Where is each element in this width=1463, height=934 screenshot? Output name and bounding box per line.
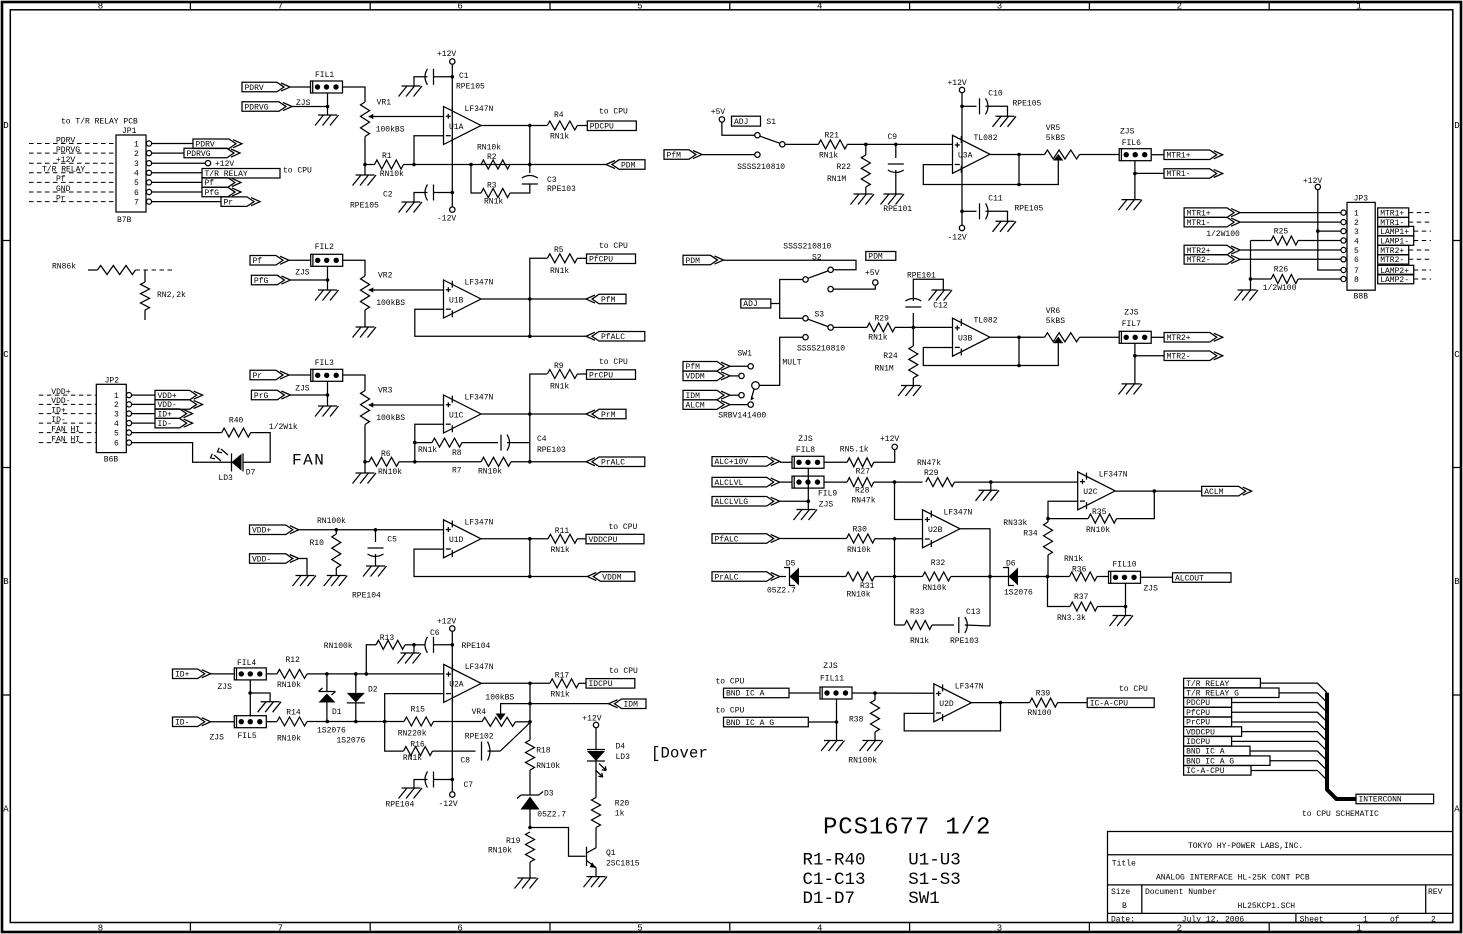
wire BND IC A G to FIL11 center and ground	[836, 699, 838, 741]
capacitor C2 RPE105	[350, 185, 454, 211]
ground at C11	[993, 221, 1017, 232]
svg-text:BND IC A: BND IC A	[726, 690, 765, 699]
svg-text:+12V: +12V	[437, 618, 456, 627]
svg-text:RPE105: RPE105	[350, 202, 379, 211]
svg-text:PfCPU: PfCPU	[589, 256, 613, 265]
svg-text:1: 1	[1356, 2, 1361, 12]
svg-text:1: 1	[114, 392, 119, 401]
filter FIL10	[1109, 561, 1159, 594]
svg-text:R4: R4	[554, 111, 564, 120]
svg-text:MTR1+: MTR1+	[1167, 152, 1191, 161]
node Pf into FIL2	[250, 256, 311, 267]
svg-text:SRBV141400: SRBV141400	[718, 412, 766, 421]
svg-text:RPE103: RPE103	[950, 637, 979, 646]
wire FIL2 center to ground	[326, 266, 330, 290]
wire U1D - feedback to VDDM line	[414, 549, 587, 578]
svg-text:R40: R40	[229, 417, 244, 426]
svg-text:B: B	[3, 577, 9, 587]
svg-text:R9: R9	[554, 362, 564, 371]
svg-text:July 12, 2006: July 12, 2006	[1182, 915, 1245, 924]
svg-text:R37: R37	[1074, 593, 1089, 602]
svg-text:TL082: TL082	[974, 134, 998, 143]
svg-text:RN10k: RN10k	[477, 144, 501, 153]
svg-text:MULT: MULT	[782, 359, 801, 368]
resistor R21 RN1k	[818, 132, 952, 161]
svg-text:PDM: PDM	[868, 252, 883, 261]
svg-text:+12V: +12V	[582, 715, 601, 724]
svg-text:RN10k: RN10k	[847, 546, 871, 555]
wire FIL1 center to ground	[326, 93, 330, 115]
svg-text:D7: D7	[246, 469, 256, 478]
node ID+ source	[173, 669, 235, 680]
svg-text:VDD-: VDD-	[252, 555, 271, 564]
resistor R9 RN1k	[547, 362, 586, 392]
node MTR2+ into JP3 pin5	[1184, 245, 1341, 256]
power +12V rail of U3A	[948, 79, 967, 225]
node MTR2+ out	[1151, 333, 1223, 344]
wire U2D output to R39	[972, 701, 1030, 705]
node Pf from JP1 pin5	[152, 178, 241, 189]
resistor R29b RN47k	[917, 459, 1078, 487]
svg-text:PDCPU: PDCPU	[590, 123, 614, 132]
svg-text:Size: Size	[1111, 888, 1130, 897]
resistor R24 RN1M	[875, 327, 918, 385]
svg-text:D: D	[1454, 121, 1459, 131]
svg-text:8: 8	[1354, 276, 1359, 285]
svg-text:PfM: PfM	[601, 296, 616, 305]
wire VDD+ to U1D + input	[299, 528, 444, 532]
resistor R40 1/2W1k	[222, 417, 298, 438]
op-amp U1C LF347N	[444, 394, 494, 434]
svg-text:4: 4	[1354, 237, 1359, 246]
wire D3 node to Q1 base	[530, 828, 586, 857]
ground below R38	[860, 741, 884, 752]
svg-text:PfALC: PfALC	[715, 535, 739, 544]
wire U3B output to VR6	[990, 336, 1045, 340]
svg-text:JP2: JP2	[105, 377, 120, 386]
resistor R20 1k	[592, 761, 630, 848]
svg-text:PDM: PDM	[621, 161, 636, 170]
svg-text:PfM: PfM	[667, 151, 682, 160]
svg-text:RPE104: RPE104	[352, 592, 381, 601]
node PrG to FIL3 center	[251, 390, 327, 401]
svg-text:R27: R27	[856, 468, 871, 477]
node PfG from JP1 pin6	[152, 187, 241, 198]
svg-text:C3: C3	[547, 176, 557, 185]
svg-text:VR3: VR3	[378, 387, 393, 396]
svg-text:1/2W1k: 1/2W1k	[269, 423, 298, 432]
svg-text:VR6: VR6	[1046, 307, 1061, 316]
svg-text:HL25KCP1.SCH: HL25KCP1.SCH	[1238, 902, 1296, 911]
wire U1B output to R5	[530, 258, 547, 299]
wire JP2 pin6 to LED D7 anode	[132, 443, 232, 463]
svg-text:VDD+: VDD+	[51, 388, 70, 397]
ground below C6 node	[398, 645, 422, 664]
svg-text:2: 2	[1354, 219, 1359, 228]
svg-text:PrM: PrM	[601, 411, 616, 420]
svg-text:C13: C13	[966, 608, 981, 617]
wire U1C output to R9	[530, 374, 547, 414]
ground below R19	[515, 878, 539, 889]
node IDCPU to CPU	[586, 667, 638, 689]
connector JP2	[96, 377, 131, 465]
ground at C7	[399, 788, 423, 799]
svg-text:RPE101: RPE101	[907, 272, 936, 281]
resistor R13 RN100k loop	[324, 634, 416, 674]
svg-text:to CPU: to CPU	[716, 707, 745, 716]
node PDCPU to CPU	[587, 108, 636, 132]
svg-text:RN1k: RN1k	[910, 637, 929, 646]
resistor RN86k spare	[52, 263, 135, 275]
wire VR5 to FIL6	[1080, 154, 1120, 156]
resistor R32 RN10k	[923, 559, 1009, 593]
svg-text:VDDCPU: VDDCPU	[589, 536, 618, 545]
svg-text:R39: R39	[1036, 690, 1051, 699]
resistor RN2.2k spare	[141, 270, 187, 320]
node ALCM to SW1	[683, 400, 748, 411]
svg-text:R17: R17	[555, 672, 570, 681]
title block size/document row	[1111, 888, 1443, 911]
svg-text:2: 2	[114, 401, 119, 410]
svg-text:D5: D5	[786, 560, 796, 569]
svg-text:PrALC: PrALC	[715, 573, 739, 582]
svg-text:SSSS210810: SSSS210810	[783, 243, 831, 252]
resistor R30 RN10k	[847, 526, 923, 556]
resistor R35 RN10k feedback	[1048, 491, 1154, 535]
svg-text:RN86k: RN86k	[52, 263, 76, 272]
svg-text:5: 5	[114, 429, 119, 438]
ground below R10	[324, 576, 348, 587]
svg-text:ALCLVLG: ALCLVLG	[715, 498, 749, 507]
ground below BND IC A G	[821, 741, 845, 752]
resistor R26 1/2W100	[1251, 266, 1341, 294]
svg-text:8: 8	[98, 2, 103, 12]
node PDRVG to FIL1 center pin	[242, 102, 328, 113]
svg-text:7: 7	[278, 2, 283, 12]
svg-text:S1: S1	[766, 118, 776, 127]
op-amp U1A LF347N	[444, 105, 494, 145]
svg-text:R25: R25	[1274, 228, 1289, 237]
switch S3 SSSS210810	[797, 311, 845, 354]
svg-text:IDCPU: IDCPU	[589, 680, 613, 689]
svg-text:Sheet: Sheet	[1300, 915, 1324, 924]
svg-text:C6: C6	[430, 629, 440, 638]
wire U2A output	[481, 682, 550, 741]
net label PDM box	[866, 252, 896, 262]
svg-text:U1B: U1B	[449, 296, 464, 305]
svg-text:Pf: Pf	[56, 175, 66, 184]
wire VR3 bottom to R6 node	[364, 425, 366, 462]
wire U1A output	[481, 124, 547, 128]
svg-text:LF347N: LF347N	[1099, 470, 1128, 479]
node ALCLVL source	[712, 477, 792, 488]
wire U3A output to VR5	[990, 153, 1045, 157]
ground below FIL3	[315, 406, 339, 417]
svg-text:FIL2: FIL2	[315, 243, 334, 252]
svg-text:D3: D3	[544, 790, 554, 799]
svg-text:RN10k: RN10k	[277, 681, 301, 690]
svg-text:LF347N: LF347N	[465, 279, 494, 288]
ground at C1	[399, 86, 423, 97]
wire U3A - feedback loop	[923, 155, 1021, 187]
interconnect bus thick wire	[1327, 693, 1356, 799]
svg-text:5: 5	[134, 179, 139, 188]
svg-text:3: 3	[134, 160, 139, 169]
JP1 left dashed stubs	[29, 136, 116, 203]
svg-text:FAN HI: FAN HI	[51, 435, 80, 444]
svg-text:to CPU: to CPU	[599, 358, 628, 367]
svg-text:1: 1	[1354, 209, 1359, 218]
potentiometer VR6 5kBS	[1019, 307, 1080, 366]
svg-text:LF347N: LF347N	[465, 518, 494, 527]
svg-text:RN1k: RN1k	[868, 334, 887, 343]
svg-text:2: 2	[134, 150, 139, 159]
svg-text:C1: C1	[459, 72, 469, 81]
svg-text:T/R RELAY: T/R RELAY	[42, 166, 85, 175]
svg-text:U1-U3: U1-U3	[908, 851, 961, 871]
LED D4 LD3	[587, 743, 630, 778]
svg-text:ZJS: ZJS	[819, 501, 834, 510]
svg-text:C4: C4	[537, 435, 547, 444]
switch S1 SSSS210810 ADJ	[732, 116, 786, 172]
wire dashed spare net	[136, 269, 174, 271]
ground below VR3/R6 node	[353, 460, 377, 484]
wire R28 node to U2B + input	[895, 482, 923, 519]
svg-text:100kBS: 100kBS	[485, 693, 514, 702]
wire FIL6 center to ground	[1133, 161, 1137, 200]
svg-text:LD3: LD3	[616, 753, 631, 762]
svg-text:to CPU: to CPU	[283, 167, 312, 176]
svg-text:to T/R RELAY PCB: to T/R RELAY PCB	[61, 118, 138, 127]
svg-text:RN1k: RN1k	[550, 133, 569, 142]
svg-text:VR2: VR2	[378, 272, 393, 281]
svg-text:ZJS: ZJS	[1120, 128, 1135, 137]
svg-text:R8: R8	[452, 449, 462, 458]
svg-text:ACLM: ACLM	[1204, 488, 1223, 497]
svg-text:PfALC: PfALC	[601, 333, 625, 342]
svg-text:+12V: +12V	[56, 156, 75, 165]
power -12V rail of U3A	[948, 210, 967, 243]
wire VR2 wiper to U1B + input	[374, 289, 444, 291]
ground below VR1/R1 node	[353, 163, 377, 186]
wire feedback line to PDM	[414, 163, 606, 167]
svg-text:C11: C11	[988, 195, 1003, 204]
capacitor C10 RPE105	[962, 90, 1042, 117]
node PDRV from JP1 pin1	[152, 139, 242, 150]
svg-text:05Z2.7: 05Z2.7	[767, 587, 796, 596]
svg-text:RN10k: RN10k	[378, 468, 402, 477]
svg-text:RN100: RN100	[1028, 709, 1052, 718]
resistor R38 RN100k	[848, 693, 879, 765]
svg-text:R29: R29	[924, 469, 939, 478]
svg-text:6: 6	[457, 2, 462, 12]
node VDDM meter	[587, 572, 635, 583]
node PDRVG from JP1 pin2	[152, 148, 240, 159]
svg-text:2: 2	[1431, 915, 1436, 924]
wire +12V to JP3 pin3	[1318, 230, 1341, 232]
wire U1B output	[481, 297, 586, 336]
svg-text:R11: R11	[555, 527, 570, 536]
svg-text:RN10k: RN10k	[277, 735, 301, 744]
op-amp U3B TL082	[953, 317, 998, 357]
svg-text:C5: C5	[387, 536, 397, 545]
capacitor C9 RPE101	[883, 133, 912, 214]
filter FIL6	[1119, 128, 1151, 161]
wire S2 pole to ADJ vertical	[780, 280, 803, 319]
svg-text:R2: R2	[487, 153, 497, 162]
svg-text:IDM: IDM	[624, 701, 639, 710]
svg-text:S3: S3	[815, 311, 825, 320]
wire R25 R26 common leg	[1249, 241, 1253, 281]
ground below C9	[881, 194, 905, 205]
svg-text:R28: R28	[855, 487, 870, 496]
svg-text:C8: C8	[460, 757, 470, 766]
wire FIL4 to R12	[267, 673, 277, 675]
svg-text:C: C	[3, 350, 9, 360]
power +5V at S1	[711, 108, 755, 135]
filter FIL5	[210, 716, 267, 743]
svg-text:FIL3: FIL3	[315, 359, 334, 368]
node T/R RELAY to CPU	[152, 167, 312, 180]
svg-text:U1A: U1A	[449, 123, 464, 132]
potentiometer VR3 100kBS	[361, 387, 406, 425]
svg-text:R5: R5	[554, 246, 564, 255]
svg-text:RN100k: RN100k	[317, 517, 346, 526]
svg-text:R26: R26	[1274, 266, 1289, 275]
title block frame	[1108, 832, 1453, 923]
svg-text:to CPU: to CPU	[609, 667, 638, 676]
svg-text:R32: R32	[931, 559, 946, 568]
node PrALC source	[712, 572, 786, 583]
svg-text:RN1k: RN1k	[550, 383, 569, 392]
svg-text:TOKYO HY-POWER LABS,INC.: TOKYO HY-POWER LABS,INC.	[1188, 842, 1303, 851]
svg-text:RN1k: RN1k	[819, 152, 838, 161]
potentiometer VR5 5kBS	[1019, 124, 1080, 185]
filter FIL8	[792, 435, 824, 468]
node PfALC	[586, 332, 645, 343]
svg-text:RN1M: RN1M	[875, 365, 894, 374]
svg-text:R10: R10	[310, 539, 325, 548]
svg-text:ID-: ID-	[51, 416, 65, 425]
wire FIL11 to U2D + input	[852, 691, 934, 695]
svg-text:R29: R29	[875, 315, 890, 324]
ground below R25/R26 leg	[1235, 279, 1259, 301]
svg-text:RN10k: RN10k	[478, 467, 502, 476]
node MTR1+ into JP3 pin1	[1184, 208, 1341, 219]
svg-text:8: 8	[98, 924, 103, 934]
svg-text:Pf: Pf	[253, 257, 263, 266]
svg-text:PDM: PDM	[686, 257, 701, 266]
svg-text:4: 4	[134, 170, 139, 179]
resistor R22 RN1M	[827, 144, 870, 194]
svg-text:3: 3	[1354, 228, 1359, 237]
wire FIL3 to VR3	[343, 375, 365, 391]
svg-text:1: 1	[1363, 915, 1368, 924]
svg-text:R12: R12	[286, 656, 301, 665]
resistor R11 RN1k	[548, 527, 586, 555]
svg-text:to CPU: to CPU	[599, 242, 628, 251]
svg-text:6: 6	[114, 439, 119, 448]
capacitor C7 RPE104	[386, 772, 474, 810]
zener D3 05Z2.7	[517, 790, 566, 830]
svg-text:RN1k: RN1k	[1064, 555, 1083, 564]
power -12V rail of U1A	[437, 207, 456, 224]
resistor R27 RN5.1k	[824, 446, 874, 477]
resistor R16 RN1k	[385, 722, 476, 764]
power +12V rail of U1A	[437, 50, 456, 207]
svg-text:R38: R38	[849, 716, 864, 725]
svg-text:MTR2-: MTR2-	[1167, 353, 1191, 362]
svg-text:U2A: U2A	[449, 681, 464, 690]
node Pr from JP1 pin7	[152, 197, 260, 208]
svg-text:ANALOG INTERFACE HL-25K CONT P: ANALOG INTERFACE HL-25K CONT PCB	[1156, 874, 1310, 883]
ground below R22	[851, 194, 875, 205]
svg-text:of: of	[1390, 915, 1400, 924]
ground at C2	[399, 202, 423, 213]
svg-text:4: 4	[817, 2, 822, 12]
wire S1 pole to R21	[785, 143, 818, 145]
svg-text:ALCM: ALCM	[686, 401, 705, 410]
svg-text:ZJS: ZJS	[823, 662, 838, 671]
svg-text:FIL7: FIL7	[1122, 320, 1141, 329]
ground at C12	[929, 290, 953, 301]
svg-text:S2: S2	[812, 254, 822, 263]
filter FIL2	[295, 243, 343, 278]
svg-text:+12V: +12V	[948, 79, 967, 88]
svg-text:to CPU: to CPU	[1119, 685, 1148, 694]
svg-text:+12V: +12V	[215, 160, 234, 169]
svg-text:ZJS: ZJS	[210, 734, 225, 743]
op-amp U2A LF347N	[444, 663, 494, 703]
node PrM meter	[586, 409, 626, 420]
svg-text:VR1: VR1	[377, 99, 392, 108]
svg-text:FIL5: FIL5	[238, 732, 257, 741]
svg-text:D6: D6	[1006, 560, 1016, 569]
svg-text:to CPU SCHEMATIC: to CPU SCHEMATIC	[1302, 810, 1379, 819]
resistor R33 RN1k loop	[895, 608, 955, 646]
svg-text:C: C	[1454, 350, 1460, 360]
svg-text:LF347N: LF347N	[944, 508, 973, 517]
wire FIL8 FIL9 centers to ground	[807, 468, 811, 509]
potentiometer VR2 100kBS	[361, 272, 406, 310]
svg-text:C9: C9	[888, 133, 898, 142]
filter FIL1	[296, 71, 343, 108]
filter FIL3	[295, 359, 343, 394]
resistor R14 RN10k	[267, 709, 307, 744]
resistor R4 RN1k	[547, 111, 587, 142]
resistor R5 RN1k	[547, 246, 586, 276]
svg-text:05Z2.7: 05Z2.7	[537, 811, 566, 820]
node BND IC A G from CPU	[716, 707, 839, 728]
resistor R39 RN100	[1028, 690, 1088, 719]
svg-text:VR4: VR4	[472, 708, 487, 717]
svg-text:RPE105: RPE105	[456, 83, 485, 92]
filter FIL11	[820, 662, 852, 699]
svg-text:RN1k: RN1k	[403, 754, 422, 763]
filter FIL7	[1119, 309, 1151, 344]
svg-text:100kBS: 100kBS	[376, 126, 405, 135]
wire ID- line R14 to R15 node	[307, 720, 404, 724]
wire U1A output to feedback line	[529, 126, 531, 165]
svg-text:RN10k: RN10k	[847, 591, 871, 600]
svg-text:VDD-: VDD-	[51, 397, 70, 406]
node ALCLVLG source	[712, 497, 808, 508]
node MTR1+ out	[1151, 150, 1223, 161]
svg-text:INTERCONN: INTERCONN	[1359, 796, 1402, 805]
svg-text:7: 7	[134, 198, 139, 207]
svg-text:PDRV: PDRV	[245, 84, 264, 93]
svg-text:JP1: JP1	[122, 127, 137, 136]
